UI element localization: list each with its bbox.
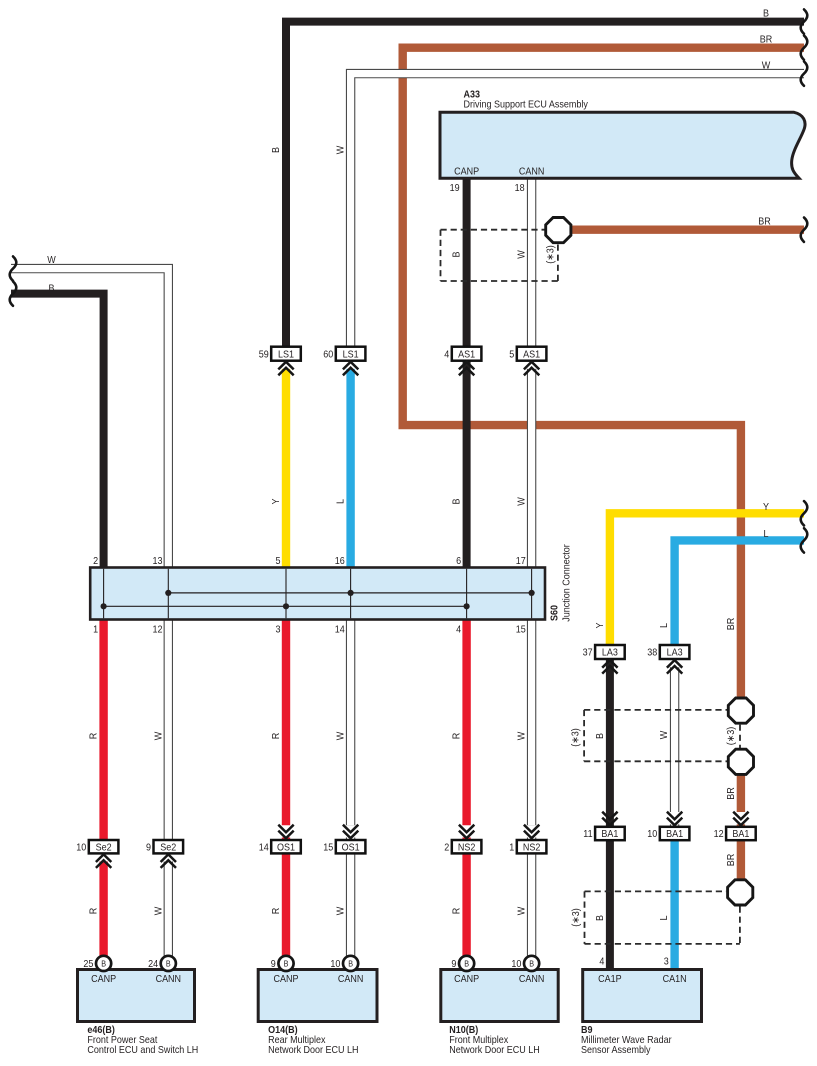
svg-text:B: B xyxy=(763,8,769,20)
chevrons below 5 AS1 xyxy=(524,362,539,370)
svg-text:16: 16 xyxy=(335,556,345,568)
svg-text:R: R xyxy=(271,733,283,740)
svg-text:B: B xyxy=(464,959,469,968)
wire W from left edge to junction pin 13 xyxy=(11,269,168,568)
svg-text:W: W xyxy=(335,907,347,916)
chevrons above 10 BA1 xyxy=(667,812,682,820)
svg-text:Y: Y xyxy=(763,501,770,513)
svg-text:11: 11 xyxy=(583,829,592,841)
connector 12 BA1 xyxy=(726,827,756,840)
svg-text:LA3: LA3 xyxy=(667,647,683,659)
wire R below 14 OS1 to O14 pin 9 xyxy=(282,853,290,956)
svg-text:LA3: LA3 xyxy=(602,647,618,659)
svg-text:10: 10 xyxy=(511,958,521,970)
svg-text:Driving Support ECU Assembly: Driving Support ECU Assembly xyxy=(464,99,589,111)
svg-text:B: B xyxy=(348,959,353,968)
svg-text:1: 1 xyxy=(509,842,514,854)
svg-text:W: W xyxy=(153,907,165,916)
svg-text:19: 19 xyxy=(450,183,460,195)
chevrons below 10 Se2 xyxy=(96,854,111,862)
svg-text:B: B xyxy=(101,959,106,968)
shield ground octagon near B9 xyxy=(728,880,753,905)
svg-text:CANN: CANN xyxy=(338,973,364,985)
svg-text:(∗3): (∗3) xyxy=(545,245,557,264)
svg-text:OS1: OS1 xyxy=(277,842,295,854)
shield dashed box around BA1-B9 pair xyxy=(585,890,727,892)
wire B from A33 pin 19 CANP to 4 AS1 xyxy=(463,178,471,347)
svg-text:BA1: BA1 xyxy=(666,829,683,841)
pin 10 circle B at N10 xyxy=(524,956,539,971)
svg-text:BR: BR xyxy=(725,787,737,800)
break symbol right edge wire B xyxy=(801,9,808,33)
wire B from left edge to junction pin 2 xyxy=(11,294,104,568)
connector 2 NS2 xyxy=(452,840,482,853)
svg-text:CANP: CANP xyxy=(454,166,479,178)
connector 14 OS1 xyxy=(271,840,301,853)
svg-text:CANN: CANN xyxy=(519,166,545,178)
wire BR top horizontal-vertical run (A33 area to junction area) xyxy=(403,48,804,697)
chevrons below 38 LA3 xyxy=(667,660,682,668)
svg-text:14: 14 xyxy=(335,624,345,636)
svg-text:3: 3 xyxy=(275,624,280,636)
svg-text:R: R xyxy=(451,733,463,740)
svg-text:10: 10 xyxy=(647,829,657,841)
svg-text:L: L xyxy=(335,499,347,504)
svg-text:CANN: CANN xyxy=(156,973,182,985)
svg-text:10: 10 xyxy=(76,842,86,854)
connector 37 LA3 xyxy=(595,645,625,659)
shield dashed box around LA3-BA1 pair xyxy=(584,709,727,711)
svg-text:Network Door ECU LH: Network Door ECU LH xyxy=(268,1045,359,1057)
svg-text:L: L xyxy=(763,528,768,540)
junction CANN bus line xyxy=(168,592,531,594)
wire W stub above 15 OS1 xyxy=(346,838,355,841)
break symbol right edge wire BR shield xyxy=(801,218,808,242)
svg-text:5: 5 xyxy=(509,349,514,361)
wire BR between shield octagons and connector 12 BA1 xyxy=(737,776,745,813)
wire R junction pin 1 to 10 Se2 xyxy=(99,619,107,840)
svg-text:CANN: CANN xyxy=(519,973,545,985)
wire W from 38 LA3 to 10 BA1 xyxy=(670,667,679,812)
svg-text:10: 10 xyxy=(330,958,340,970)
chevrons above 12 BA1 xyxy=(733,812,748,820)
shield dashed link between octagons xyxy=(739,725,741,748)
svg-text:BR: BR xyxy=(725,618,737,631)
svg-text:NS2: NS2 xyxy=(458,842,475,854)
svg-text:9: 9 xyxy=(271,958,276,970)
svg-text:B: B xyxy=(451,251,463,257)
svg-text:12: 12 xyxy=(714,829,724,841)
pin 25 circle B at e46 xyxy=(96,956,111,971)
wire B from 37 LA3 to 11 BA1 xyxy=(606,660,614,828)
svg-text:W: W xyxy=(335,146,347,155)
ECU O14(B) Rear Multiplex Network Door ECU box xyxy=(258,970,377,1022)
break symbol right edge wire Y xyxy=(801,501,808,525)
svg-text:24: 24 xyxy=(148,958,158,970)
wire W below 15 OS1 to O14 pin 10 xyxy=(346,853,355,956)
svg-text:BR: BR xyxy=(725,854,737,867)
ECU A33 Driving Support ECU Assembly box xyxy=(440,112,805,178)
svg-text:37: 37 xyxy=(583,647,593,659)
wire W from A33 pin 18 CANN to 5 AS1 xyxy=(527,178,536,347)
svg-text:9: 9 xyxy=(451,958,456,970)
svg-text:B: B xyxy=(594,915,606,921)
wire BR from shield octagon near A33 to right edge xyxy=(572,225,805,233)
break symbol right edge wire W xyxy=(801,61,808,85)
connector 10 BA1 xyxy=(660,827,690,840)
svg-text:Control ECU and Switch LH: Control ECU and Switch LH xyxy=(87,1045,198,1057)
wire R junction pin 4 to 2 NS2 xyxy=(462,619,470,825)
wire BR from 12 BA1 to lower shield octagon xyxy=(737,840,745,880)
svg-text:R: R xyxy=(88,733,100,740)
svg-text:Y: Y xyxy=(594,622,606,629)
svg-text:L: L xyxy=(658,915,670,920)
wire W top horizontal from right edge down to 60 LS1 xyxy=(351,74,804,347)
svg-text:9: 9 xyxy=(146,842,151,854)
pin 10 circle B at O14 xyxy=(343,956,358,971)
pin 24 circle B at e46 xyxy=(161,956,176,971)
svg-text:18: 18 xyxy=(515,183,525,195)
svg-text:W: W xyxy=(516,497,528,506)
connector 60 LS1 xyxy=(336,347,366,361)
svg-text:3: 3 xyxy=(664,956,669,968)
connector 11 BA1 xyxy=(595,827,625,840)
svg-text:Y: Y xyxy=(271,498,283,505)
svg-text:12: 12 xyxy=(152,624,162,636)
wire W from 5 AS1 to junction pin 17 xyxy=(527,369,536,568)
chevrons below 37 LA3 xyxy=(602,660,617,668)
chevrons above 11 BA1 xyxy=(602,812,617,820)
svg-text:B: B xyxy=(594,733,606,739)
svg-text:W: W xyxy=(47,255,56,267)
wire W junction pin 15 to 1 NS2 xyxy=(527,619,536,825)
svg-text:Se2: Se2 xyxy=(96,842,112,854)
svg-text:2: 2 xyxy=(93,556,98,568)
svg-text:Se2: Se2 xyxy=(160,842,176,854)
svg-text:Network Door ECU LH: Network Door ECU LH xyxy=(449,1045,540,1057)
wire BR stub above 12 BA1 xyxy=(737,824,745,827)
svg-text:L: L xyxy=(658,623,670,628)
svg-text:(∗3): (∗3) xyxy=(570,908,582,927)
svg-text:BR: BR xyxy=(758,216,771,228)
chevrons below 60 LS1 xyxy=(343,362,358,370)
connector 10 Se2 xyxy=(89,840,119,853)
ECU e46(B) Front Power Seat Control ECU box xyxy=(78,970,195,1022)
ECU N10(B) Front Multiplex Network Door ECU box xyxy=(441,970,558,1022)
chevrons below 9 Se2 xyxy=(161,854,176,862)
break symbol right edge wire L xyxy=(801,528,808,552)
chevrons above 1 NS2 xyxy=(524,825,539,833)
svg-text:B: B xyxy=(284,959,289,968)
shield ground octagon lower near radar harness xyxy=(728,749,753,774)
wire R stub above 14 OS1 xyxy=(282,838,290,841)
svg-text:B: B xyxy=(271,147,283,153)
break symbol left edge wire W xyxy=(10,256,17,280)
chevrons above 14 OS1 xyxy=(278,825,293,833)
svg-text:59: 59 xyxy=(259,349,269,361)
svg-text:BA1: BA1 xyxy=(732,829,749,841)
svg-text:4: 4 xyxy=(599,956,604,968)
wire L from 10 BA1 to radar sensor pin 3 xyxy=(670,840,678,970)
svg-text:(∗3): (∗3) xyxy=(726,727,738,746)
svg-text:2: 2 xyxy=(444,842,449,854)
wire W below 1 NS2 to N10 pin 10 xyxy=(527,853,536,956)
wire B from 4 AS1 to junction pin 6 xyxy=(463,361,471,568)
connector 38 LA3 xyxy=(660,645,690,659)
connector 5 AS1 xyxy=(517,347,547,361)
shield dashed box around A33 CANP/CANN pair xyxy=(441,229,545,231)
wire B top horizontal from right edge down to 59 LS1 xyxy=(286,22,804,347)
wire W stub above 10 BA1 xyxy=(670,824,679,827)
svg-text:Junction Connector: Junction Connector xyxy=(561,544,573,621)
connector 4 AS1 xyxy=(452,347,482,361)
wire L from 60 LS1 to junction pin 16 xyxy=(346,369,354,568)
svg-text:W: W xyxy=(516,732,528,741)
junction CANP bus line xyxy=(104,605,467,607)
svg-text:(∗3): (∗3) xyxy=(570,728,582,747)
svg-text:B: B xyxy=(48,283,54,295)
wire Y from 59 LS1 to junction pin 5 xyxy=(282,369,290,568)
svg-text:R: R xyxy=(271,908,283,915)
svg-text:BR: BR xyxy=(760,34,773,46)
ECU B9 Millimeter Wave Radar Sensor box xyxy=(583,970,702,1022)
svg-text:CANP: CANP xyxy=(454,973,479,985)
svg-text:R: R xyxy=(451,908,463,915)
svg-text:OS1: OS1 xyxy=(342,842,360,854)
svg-text:W: W xyxy=(153,732,165,741)
svg-text:Sensor Assembly: Sensor Assembly xyxy=(581,1045,651,1057)
svg-text:4: 4 xyxy=(456,624,461,636)
wire R below 2 NS2 to N10 pin 9 xyxy=(462,853,470,956)
junction internal pass-through lines xyxy=(103,569,105,619)
svg-text:W: W xyxy=(335,732,347,741)
svg-text:17: 17 xyxy=(516,556,526,568)
svg-text:CA1N: CA1N xyxy=(663,973,687,985)
svg-text:CANP: CANP xyxy=(274,973,299,985)
break symbol right edge wire BR xyxy=(801,36,808,60)
svg-text:25: 25 xyxy=(83,958,93,970)
wire L from right edge to connector 38 LA3 xyxy=(675,540,804,645)
svg-text:1: 1 xyxy=(93,624,98,636)
wire R junction pin 3 to 14 OS1 xyxy=(282,619,290,825)
wire B from 11 BA1 to radar sensor pin 4 xyxy=(606,840,614,970)
pin 9 circle B at O14 xyxy=(278,956,293,971)
chevrons below 59 LS1 xyxy=(278,362,293,370)
svg-text:LS1: LS1 xyxy=(343,349,359,361)
svg-text:AS1: AS1 xyxy=(523,349,540,361)
wire W below 9 Se2 to e46 pin 24 xyxy=(164,862,173,957)
pin 9 circle B at N10 xyxy=(459,956,474,971)
chevrons above 2 NS2 xyxy=(459,825,474,833)
svg-text:CANP: CANP xyxy=(91,973,116,985)
wire W junction pin 14 to 15 OS1 xyxy=(346,619,355,825)
svg-text:15: 15 xyxy=(323,842,333,854)
connector 59 LS1 xyxy=(271,347,301,361)
svg-text:W: W xyxy=(516,907,528,916)
svg-text:B: B xyxy=(451,498,463,504)
svg-text:4: 4 xyxy=(444,349,449,361)
wire W junction pin 12 to 9 Se2 xyxy=(164,619,173,840)
svg-text:W: W xyxy=(762,60,771,72)
junction connector S60 box xyxy=(90,568,545,620)
svg-text:NS2: NS2 xyxy=(523,842,540,854)
chevrons below 4 AS1 xyxy=(459,362,474,370)
svg-text:W: W xyxy=(516,250,528,259)
svg-text:R: R xyxy=(88,908,100,915)
chevrons above 15 OS1 xyxy=(343,825,358,833)
svg-text:B: B xyxy=(166,959,171,968)
shield ground octagon near A33 xyxy=(546,218,571,243)
svg-text:5: 5 xyxy=(275,556,280,568)
svg-text:13: 13 xyxy=(152,556,162,568)
svg-text:B: B xyxy=(529,959,534,968)
svg-text:60: 60 xyxy=(323,349,333,361)
svg-text:14: 14 xyxy=(259,842,269,854)
wire W stub above 1 NS2 xyxy=(527,838,536,841)
wire R stub above 2 NS2 xyxy=(462,838,470,841)
connector 1 NS2 xyxy=(517,840,547,853)
svg-text:BA1: BA1 xyxy=(601,829,618,841)
svg-text:CA1P: CA1P xyxy=(598,973,621,985)
svg-text:15: 15 xyxy=(516,624,526,636)
break symbol left edge wire B xyxy=(10,281,17,305)
svg-text:LS1: LS1 xyxy=(278,349,294,361)
junction node dots xyxy=(165,590,171,596)
svg-text:AS1: AS1 xyxy=(458,349,475,361)
connector 15 OS1 xyxy=(336,840,366,853)
svg-text:38: 38 xyxy=(647,647,657,659)
svg-text:W: W xyxy=(658,731,670,740)
svg-text:S60: S60 xyxy=(549,605,561,621)
svg-text:6: 6 xyxy=(456,556,461,568)
wire Y from right edge to connector 37 LA3 xyxy=(610,513,804,645)
wire R below 10 Se2 to e46 pin 25 xyxy=(99,862,107,957)
connector 9 Se2 xyxy=(154,840,184,853)
shield ground octagon upper near radar harness xyxy=(728,698,753,723)
